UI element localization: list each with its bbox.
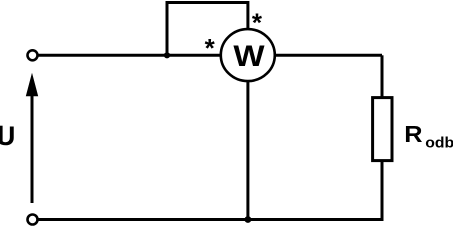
node: junction dot on bottom wire <box>245 216 252 223</box>
label U left stem (clipped at edge) <box>0 126 3 144</box>
svg-text:*: * <box>252 7 263 37</box>
wire: wattmeter bottom lead down to bottom-wire junction <box>246 80 249 220</box>
wire: resistor bottom lead down to bottom wire <box>381 160 384 221</box>
op wattmeter W1 circle <box>221 29 275 81</box>
terminal: bottom-left input <box>28 215 38 225</box>
wire: bottom horizontal from left terminal to right corner <box>38 218 384 221</box>
wire: wattmeter voltage-coil bypass loop over the top <box>167 3 248 56</box>
node: junction dot on top wire <box>164 52 170 58</box>
arrow: voltage U arrowhead <box>26 73 38 97</box>
arrow: voltage U indication shaft <box>31 96 34 203</box>
wire: right side down to resistor top <box>381 55 384 97</box>
svg-text:R: R <box>404 122 422 148</box>
svg-text:odb: odb <box>425 135 453 152</box>
wire: top horizontal from left terminal to right corner <box>38 54 383 57</box>
svg-text:*: * <box>205 33 216 63</box>
terminal: top-left input <box>28 50 38 60</box>
resistor Rodb <box>373 98 392 161</box>
svg-text:W: W <box>233 39 265 72</box>
